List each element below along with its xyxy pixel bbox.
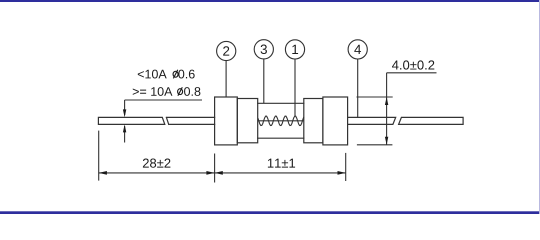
balloon 2 circle	[217, 41, 236, 60]
dim text 28±2	[143, 159, 171, 168]
left outer end cap	[215, 97, 238, 145]
fuse element axis wire	[258, 120, 304, 122]
right outer end cap	[323, 97, 348, 145]
dimension line 11±1	[215, 172, 346, 174]
arrow up at lead bottom	[123, 124, 126, 132]
left inner cap band	[237, 99, 257, 143]
lead diameter leader horizontal	[125, 99, 202, 101]
arrow down at lead top	[123, 109, 126, 117]
lead diameter leader vertical above	[124, 100, 126, 115]
note line 1 <10A 0.6 diameter symbol	[173, 71, 178, 77]
balloon 1 number	[292, 45, 298, 54]
arrow left dim 11 at shared extension	[215, 171, 223, 175]
leader line balloon 3	[263, 59, 265, 103]
balloon 4 circle	[348, 40, 367, 59]
arrow up dim 4.0 top	[385, 97, 388, 105]
dim 4.0 bottom extension line	[357, 144, 393, 146]
leader line balloon 2	[225, 61, 227, 97]
extension line left at wire end	[98, 131, 100, 181]
frame top border	[0, 0, 540, 2]
arrow down dim 4.0 bottom	[385, 137, 388, 145]
fuse tube body	[258, 103, 304, 138]
note line 1 <10A 0.6	[138, 70, 195, 79]
arrow left dim 28	[99, 171, 107, 175]
note line 2 >=10A 0.8	[133, 87, 201, 96]
arrow right dim 28 at shared extension	[206, 171, 214, 175]
dimension line 28±2	[99, 172, 215, 174]
leader line balloon 4	[357, 59, 359, 117]
dim text 11±1	[268, 159, 295, 168]
balloon 2 number	[223, 46, 229, 55]
dim 4.0 top extension line	[357, 96, 393, 98]
lead diameter lower vertical	[124, 126, 126, 143]
balloon 4 number	[354, 45, 361, 54]
frame right border	[539, 0, 540, 214]
extension line middle at cap left edge	[214, 154, 216, 183]
frame bottom border	[0, 211, 540, 214]
dim 4.0 text underline	[387, 72, 437, 74]
leader line balloon 1	[294, 59, 296, 116]
lead wire right segment 1	[348, 117, 396, 124]
balloon 1 circle	[285, 40, 304, 59]
balloon 3 circle	[254, 40, 273, 59]
dim text 4.0±0.2	[392, 60, 434, 69]
fuse element coil	[258, 116, 304, 125]
lead wire left segment 1	[98, 117, 164, 124]
lead wire left segment 2	[166, 117, 214, 124]
note line 2 >=10A 0.8 diameter symbol	[178, 89, 183, 95]
right inner cap band	[304, 99, 323, 143]
arrow right dim 11	[338, 171, 346, 175]
lead wire right segment 2	[399, 117, 464, 124]
dim 4.0 vertical dimension line	[386, 73, 388, 145]
extension line right at cap right edge	[345, 153, 347, 181]
balloon 3 number	[261, 45, 267, 54]
